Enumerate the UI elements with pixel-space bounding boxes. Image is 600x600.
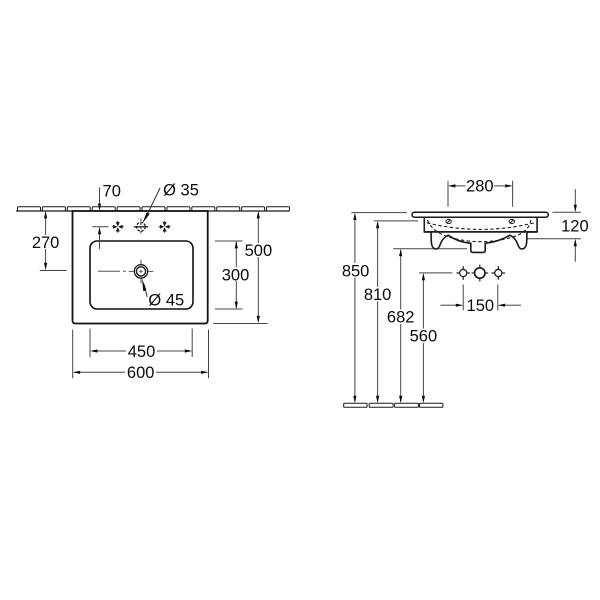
dimension 270 line xyxy=(40,213,67,271)
basin body (side view) xyxy=(424,215,537,232)
dimension 150 xyxy=(440,284,521,310)
interior dashed arc xyxy=(428,220,531,242)
slab / rim (side view) xyxy=(412,212,548,217)
tap hole cross left xyxy=(112,221,124,233)
mounting hole right xyxy=(492,266,506,280)
mounting hole center xyxy=(475,268,485,278)
tap hole cross right xyxy=(159,221,171,233)
dimension 810 line xyxy=(377,223,379,401)
dimension 300 line xyxy=(215,241,243,309)
dimension 682 line xyxy=(400,251,402,401)
svg-text:560: 560 xyxy=(410,328,438,346)
svg-text:810: 810 xyxy=(364,286,392,304)
dimension 810 extension line xyxy=(374,220,418,222)
drain centerlines xyxy=(98,260,153,283)
wall line (top view) xyxy=(16,210,290,212)
dimension 560 extension line xyxy=(419,272,452,274)
dimension 850 extension line xyxy=(351,212,407,214)
svg-text:120: 120 xyxy=(561,218,589,236)
dimension 600 xyxy=(73,330,209,379)
wall hatch bars xyxy=(18,207,290,211)
dimension 120 extension lines xyxy=(553,211,582,213)
leader line to Ø35 label xyxy=(147,188,161,216)
svg-text:500: 500 xyxy=(245,242,273,260)
mounting hole left xyxy=(456,266,470,280)
dimension 850 line xyxy=(354,215,356,402)
leader line to Ø45 label xyxy=(144,284,147,297)
dimension 280 xyxy=(448,181,513,207)
svg-text:682: 682 xyxy=(387,309,415,327)
interior dashed rim arc xyxy=(427,223,535,230)
svg-text:850: 850 xyxy=(342,262,370,280)
floor hatch bars xyxy=(344,403,443,407)
svg-text:270: 270 xyxy=(32,234,60,252)
tap hole circle (Ø35) xyxy=(137,222,146,231)
svg-text:300: 300 xyxy=(222,266,250,284)
screw hole left xyxy=(446,219,451,223)
bottom profile with legs and waste xyxy=(431,232,527,253)
basin inner bowl (top view) xyxy=(90,241,193,309)
drain hole (Ø45) xyxy=(134,265,147,278)
screw hole right xyxy=(509,219,514,223)
dimension 120 xyxy=(574,189,576,262)
svg-text:150: 150 xyxy=(467,297,495,315)
dimension 560 line xyxy=(422,275,424,401)
svg-text:280: 280 xyxy=(466,178,494,196)
dimension 500 line xyxy=(213,213,267,324)
washbasin outer rim (top view) xyxy=(73,211,208,324)
svg-text:Ø 35: Ø 35 xyxy=(163,182,199,200)
svg-text:600: 600 xyxy=(127,364,155,382)
body bottom edge xyxy=(424,231,537,233)
svg-text:70: 70 xyxy=(103,183,121,201)
dimension 450 xyxy=(90,329,192,358)
svg-text:450: 450 xyxy=(128,343,156,361)
dimension 70 lower arrow xyxy=(92,226,108,228)
dimension 70 upper arrow xyxy=(99,188,101,210)
dimension 682 extension line xyxy=(393,248,467,250)
svg-text:Ø 45: Ø 45 xyxy=(148,291,184,309)
